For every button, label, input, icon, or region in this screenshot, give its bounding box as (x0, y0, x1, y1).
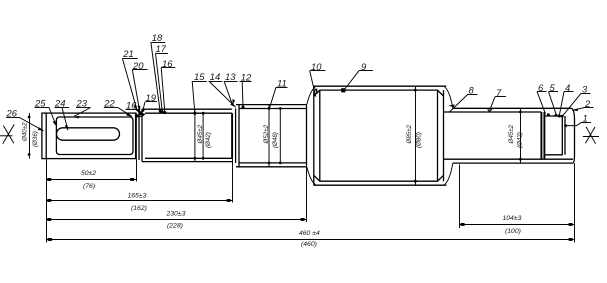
boundary B3 step to big section (307, 87, 320, 185)
label 1 (564, 113, 591, 128)
svg-text:13: 13 (225, 71, 236, 82)
section S1 blank contour (42, 113, 136, 159)
label 17 (155, 43, 168, 113)
diameter dim S5 (508, 108, 523, 163)
svg-text:230±3: 230±3 (166, 211, 186, 218)
boundary B5 groove lines (541, 112, 544, 159)
label 6 (537, 82, 550, 117)
section S4 finished contour with chamfers (314, 90, 444, 181)
blank right end rounded corners (571, 108, 574, 163)
svg-text:(Ø42): (Ø42) (205, 132, 212, 148)
svg-text:Ø52±2: Ø52±2 (263, 124, 270, 144)
svg-text:Ø45±2: Ø45±2 (508, 124, 515, 144)
extension line x232 (232, 158, 234, 202)
extension line x306.6 (306, 105, 308, 222)
dimension 104±3 (100) (460, 215, 575, 235)
label 25 (34, 98, 57, 127)
svg-text:(Ø42): (Ø42) (516, 132, 523, 148)
section S4 blank contour (313, 86, 446, 185)
label 13 (224, 71, 238, 105)
label 21 (122, 48, 138, 111)
svg-text:460 ±4: 460 ±4 (299, 230, 320, 237)
dimension 230±3 (228) (47, 211, 307, 230)
svg-text:(Ø48): (Ø48) (272, 132, 279, 148)
diameter dim S1 (22, 113, 40, 159)
section S3 finished contour (239, 109, 307, 163)
svg-text:21: 21 (122, 48, 133, 59)
label 12 (240, 71, 253, 108)
label 3 (561, 84, 591, 118)
svg-text:8: 8 (469, 84, 475, 95)
svg-text:23: 23 (76, 98, 88, 109)
svg-text:Ø85±2: Ø85±2 (406, 124, 413, 144)
leader arrow cluster at B1 (136, 109, 146, 118)
right X mark (583, 127, 599, 144)
label 2 (572, 98, 593, 111)
svg-text:50±2: 50±2 (81, 170, 96, 177)
left X mark (0, 124, 14, 143)
extension line right face (574, 163, 576, 242)
section S5 blank contour (453, 108, 573, 163)
svg-text:(Ø36): (Ø36) (32, 131, 39, 147)
section S1 finished contour (56, 117, 133, 155)
svg-text:11: 11 (277, 78, 287, 89)
svg-text:1: 1 (583, 113, 588, 124)
svg-text:Ø40±2: Ø40±2 (22, 122, 29, 142)
label 7 (488, 87, 507, 112)
label 8 (449, 84, 478, 111)
extension line x459.3 (459, 165, 461, 229)
diameter dim S4 (406, 86, 423, 185)
extension line left face (46, 159, 48, 243)
diameter dim S2 (194, 109, 213, 161)
label 24 (54, 98, 69, 131)
svg-text:25: 25 (34, 98, 46, 109)
label 26 (6, 108, 45, 131)
label 11 (270, 78, 288, 109)
svg-text:24: 24 (54, 98, 65, 109)
svg-text:18: 18 (152, 32, 163, 43)
section S6 finished contour (544, 116, 565, 155)
label 16 lower (126, 99, 143, 115)
label 9 (341, 61, 373, 93)
section S3 blank contour (236, 105, 307, 167)
svg-text:17: 17 (156, 43, 167, 54)
keyway slot (57, 128, 120, 140)
label 22 (103, 98, 132, 117)
label 20 (132, 60, 148, 112)
label 4 (558, 82, 574, 118)
label 5 (549, 82, 559, 117)
svg-text:Ø45±2: Ø45±2 (197, 124, 204, 144)
svg-text:3: 3 (582, 84, 588, 95)
boundary B4 step down (438, 87, 453, 185)
section S1 finished face line (45, 113, 47, 159)
label 19 (141, 92, 157, 112)
svg-text:26: 26 (6, 108, 18, 119)
label 10 (310, 61, 326, 97)
svg-text:(76): (76) (83, 183, 95, 190)
diameter dim S3 (263, 105, 282, 167)
svg-text:12: 12 (241, 71, 252, 82)
svg-text:(162): (162) (131, 205, 147, 212)
section S2 finished contour (145, 113, 232, 158)
svg-text:14: 14 (210, 71, 220, 82)
dimension 50±2 (76) (47, 170, 137, 190)
section S2 blank contour (142, 109, 232, 161)
boundary B2 step lines (232, 105, 239, 167)
svg-text:22: 22 (103, 98, 115, 109)
svg-text:(460): (460) (301, 241, 317, 248)
label 14 (209, 71, 236, 107)
dimension 165±3 (162) (47, 193, 233, 212)
svg-text:(228): (228) (167, 223, 183, 230)
extension line x136 (136, 159, 138, 182)
svg-text:165±3: 165±3 (128, 193, 147, 200)
boundary B1 step lines (136, 109, 142, 161)
svg-text:15: 15 (194, 71, 205, 82)
svg-text:(Ø80): (Ø80) (416, 132, 423, 148)
svg-text:104±3: 104±3 (503, 215, 522, 222)
section S5 finished contour (444, 112, 574, 159)
label 15 (192, 71, 207, 115)
dimension 460 ±4 (460) (47, 230, 575, 248)
svg-text:(100): (100) (505, 228, 521, 235)
label 18 (151, 32, 165, 112)
label 23 (73, 98, 90, 119)
label 16 (161, 58, 175, 114)
